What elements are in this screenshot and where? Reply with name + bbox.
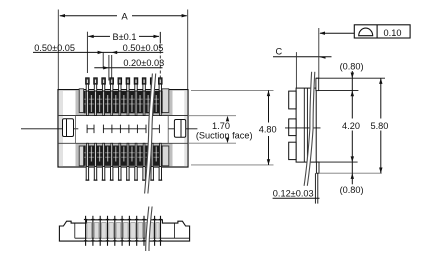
svg-text:1.70: 1.70 [212, 121, 230, 131]
solder foot 7 [135, 167, 137, 180]
svg-text:A: A [121, 11, 128, 22]
svg-text:(0.80): (0.80) [340, 62, 364, 72]
solder foot 1 [86, 167, 88, 180]
contact pin bottom 8 [143, 143, 145, 166]
arrow 0.20 [103, 66, 109, 69]
extension pin4 edges [108, 55, 110, 81]
svg-text:(Suction face): (Suction face) [196, 131, 253, 141]
side view body [296, 88, 316, 162]
bottom view pin 3 [99, 216, 101, 246]
svg-text:0.50±0.05: 0.50±0.05 [34, 43, 75, 53]
dimension 4.80 line [268, 90, 270, 122]
side view top lug [289, 91, 296, 109]
bottom view pin 6 [121, 216, 123, 246]
break line front view [146, 74, 154, 194]
side view foot lines [314, 173, 316, 203]
bottom view pin 10 [154, 216, 156, 246]
bottom view pin 8 [136, 216, 138, 246]
contact pin bottom 3 [103, 143, 105, 166]
dimension 4.80 extension lines [191, 89, 274, 91]
contact pin top 2 [94, 78, 97, 84]
front view outer body [58, 90, 188, 167]
solder foot 4 [111, 167, 113, 180]
bottom view pin 7 [128, 216, 130, 246]
tolerance extension line [318, 28, 320, 78]
svg-text:(0.80): (0.80) [340, 185, 364, 195]
bottom view pin 2 [92, 216, 94, 246]
solder foot 3 [102, 167, 104, 180]
extension line top step lower [319, 90, 359, 92]
bottom view outline [59, 220, 189, 241]
dimension 4.20 and 0.80 line [351, 71, 353, 119]
datum C line [273, 56, 332, 58]
dimension 1.70 arrows [226, 116, 229, 122]
dimension 5.80 line [380, 78, 382, 118]
dimension B line [88, 35, 110, 37]
suction face end cap right [174, 120, 185, 138]
solder foot 2 [94, 167, 96, 180]
svg-text:0.50±0.05: 0.50±0.05 [123, 43, 164, 53]
front view upper molding band [76, 91, 173, 116]
solder foot 9 [151, 167, 153, 180]
svg-text:C: C [275, 47, 282, 57]
contact pin top 9 [151, 78, 154, 84]
svg-text:5.80: 5.80 [370, 121, 388, 131]
extension line top step upper [316, 77, 385, 79]
extension pin3 center [102, 52, 104, 68]
profile of surface symbol [359, 28, 373, 36]
contact pin top 6 [126, 78, 129, 84]
centerline front view [21, 125, 197, 134]
inner shadow strips [59, 90, 63, 166]
contact pin bottom 2 [95, 143, 97, 166]
svg-text:B±0.1: B±0.1 [113, 32, 137, 42]
datum C extension down [295, 52, 297, 88]
arrow 0.50 right [112, 51, 118, 54]
solder foot 10 [159, 167, 161, 180]
bottom view pin 9 [143, 216, 145, 246]
contact pin bottom 9 [151, 143, 153, 166]
svg-text:0.10: 0.10 [384, 28, 402, 38]
bottom view pin 11 [160, 216, 162, 246]
dimension B extension line [86, 32, 88, 73]
extension line bottom step lower [319, 172, 382, 174]
contact pin top 7 [134, 78, 137, 84]
leader line 0.50 [33, 51, 163, 53]
tolerance leader [320, 32, 354, 34]
upper contact slabs [79, 89, 169, 114]
contact pin bottom 7 [135, 143, 137, 166]
contact pin bottom 5 [119, 143, 121, 166]
suction face end cap left [63, 119, 74, 137]
bottom view inner lines [75, 237, 189, 239]
contact pin bottom 4 [111, 143, 113, 166]
contact pin top 10 [159, 78, 162, 84]
svg-text:4.80: 4.80 [259, 125, 277, 135]
contact pin bottom 1 [87, 143, 89, 166]
side view top step [316, 78, 319, 90]
contact pin bottom 10 [160, 143, 162, 166]
contact pin top 8 [142, 78, 145, 84]
side view inner lines [303, 88, 305, 162]
dimension 0.12 leader [273, 197, 320, 199]
svg-text:0.20±0.03: 0.20±0.03 [123, 58, 164, 68]
dimension B tick right [159, 32, 161, 44]
dimension A extension line right [187, 10, 189, 90]
contact pin bottom 6 [127, 143, 129, 166]
svg-text:0.12±0.03: 0.12±0.03 [273, 188, 314, 198]
band edge lines [58, 115, 188, 117]
extension line bottom step upper [316, 161, 357, 163]
svg-text:4.20: 4.20 [342, 121, 360, 131]
solder foot 8 [143, 167, 145, 180]
side view bottom lug [289, 142, 296, 159]
dimension A extension line left [57, 10, 59, 90]
lower contact slabs [79, 146, 169, 166]
dimension A line [60, 15, 117, 17]
dimension 1.70 extension lines [189, 115, 236, 117]
front view lower molding band [76, 143, 173, 166]
profile tolerance frame [354, 25, 410, 38]
bottom view pin 5 [114, 216, 116, 246]
contact pin top 5 [118, 78, 121, 84]
solder foot 6 [127, 167, 129, 180]
dashed centerline last pin [159, 46, 161, 81]
leader line 0.20 [94, 67, 162, 69]
contact pin top 3 [102, 78, 105, 84]
contact pin top 4 [110, 78, 113, 84]
arrow 0.50 left [98, 51, 104, 54]
bottom view break line [147, 207, 150, 252]
bottom view pin 4 [107, 216, 109, 246]
side view break line [306, 72, 314, 186]
side view bottom step [316, 162, 319, 173]
contact pin top 1 [86, 78, 89, 84]
solder foot 5 [119, 167, 121, 180]
suction band inner verticals [75, 116, 77, 144]
side view centerline [285, 127, 321, 129]
side view middle lug [289, 119, 296, 136]
bottom view pin 1 [85, 216, 87, 246]
